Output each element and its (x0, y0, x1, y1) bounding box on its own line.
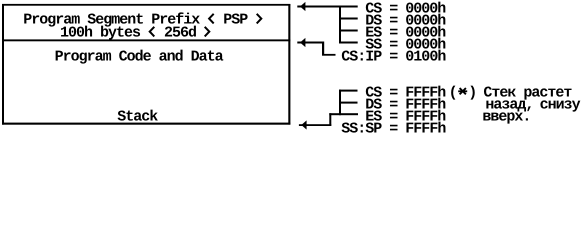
memory box right border (288, 4, 290, 125)
wire: bottom CS stub (339, 90, 358, 92)
svg-text:(: ( (449, 84, 457, 101)
wire: CS:IP row5 horizontal (322, 54, 336, 56)
angle bracket left of 256d (150, 27, 155, 37)
wire: DS stub (339, 18, 358, 20)
arrow to PSP:100h (left-pointing) (300, 38, 305, 47)
wire: ES stub (339, 30, 358, 32)
svg-text:вверх.: вверх. (482, 108, 530, 125)
svg-text:снизу: снизу (540, 96, 581, 113)
memory box top border (2, 4, 290, 6)
angle bracket left of PSP (209, 14, 214, 24)
svg-text:SS:SP = FFFFh: SS:SP = FFFFh (341, 120, 446, 134)
wire: stack arrow horizontal (299, 124, 331, 126)
wire: CS row horizontal (297, 6, 357, 8)
wire: top bracket spine (339, 6, 341, 44)
wire: SS stub (339, 42, 358, 44)
svg-text:CS:IP = 0100h: CS:IP = 0100h (341, 48, 446, 65)
svg-text:Program Code and Data: Program Code and Data (55, 48, 224, 65)
PSP divider line (2, 39, 290, 41)
wire: bottom bracket spine (339, 90, 341, 116)
angle bracket right of 256d (205, 27, 210, 37)
star asterisk (458, 90, 467, 92)
arrow to stack bottom (left-pointing) (301, 120, 306, 129)
memory box bottom border (2, 123, 290, 125)
wire: bottom ES stub with jog (329, 113, 358, 115)
svg-text:100h bytes 256d: 100h bytes 256d (60, 24, 212, 41)
wire: jog vertical (329, 113, 331, 126)
arrow to PSP top (left-pointing) (300, 2, 305, 11)
svg-text:Stack: Stack (117, 108, 158, 125)
wire: bottom DS stub (339, 102, 358, 104)
wire: CS:IP horizontal from arrow (297, 42, 323, 44)
svg-text:): ) (468, 84, 476, 101)
angle bracket right of PSP (257, 14, 262, 24)
memory box left border (2, 4, 4, 125)
wire: CS:IP corner vertical (322, 42, 324, 56)
